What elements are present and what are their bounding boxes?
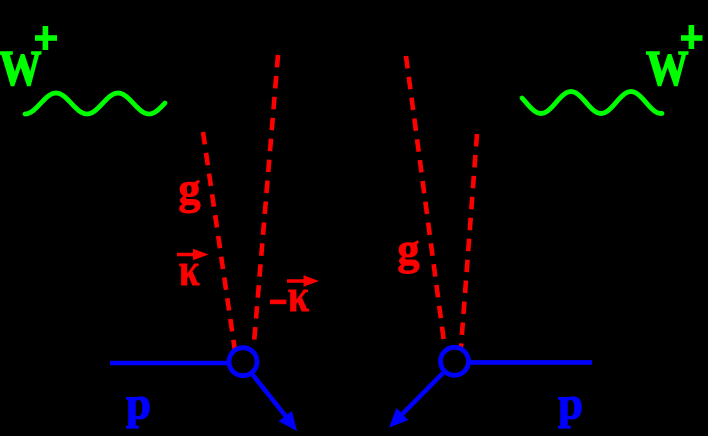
svg-text:g: g xyxy=(179,165,201,214)
svg-text:W: W xyxy=(0,40,42,96)
svg-text:κ: κ xyxy=(179,244,200,295)
wavy photon-style line: left W boson propagator xyxy=(25,93,165,114)
gluon line g (right outer, dashed red) xyxy=(461,134,477,347)
vector arrow over kappa (right) xyxy=(287,275,319,286)
svg-text:g: g xyxy=(398,225,420,274)
svg-text:p: p xyxy=(126,379,151,429)
gluon line (right inner, dashed red) xyxy=(406,56,444,342)
proton line (right, blue) xyxy=(471,360,593,365)
vector arrow over kappa (left) xyxy=(177,249,209,260)
svg-text:κ: κ xyxy=(288,270,309,321)
gluon line (left inner, dashed red) xyxy=(254,55,278,343)
gluon line g (left outer, dashed red) xyxy=(203,132,235,351)
outgoing remnant arrow (left vertex) xyxy=(253,375,298,432)
proton line (left, blue) xyxy=(110,361,229,366)
label W+ (left W boson) xyxy=(0,26,57,96)
wavy photon-style line: right W boson propagator xyxy=(522,92,662,114)
outgoing remnant arrow (right vertex) xyxy=(389,373,443,428)
vertex circle (left) xyxy=(229,348,257,376)
label W+ (right W boson) xyxy=(646,25,703,96)
svg-text:p: p xyxy=(558,379,583,429)
vertex circle (right) xyxy=(441,347,469,375)
minus sign of -kappa xyxy=(270,300,286,305)
svg-text:W: W xyxy=(646,40,689,96)
